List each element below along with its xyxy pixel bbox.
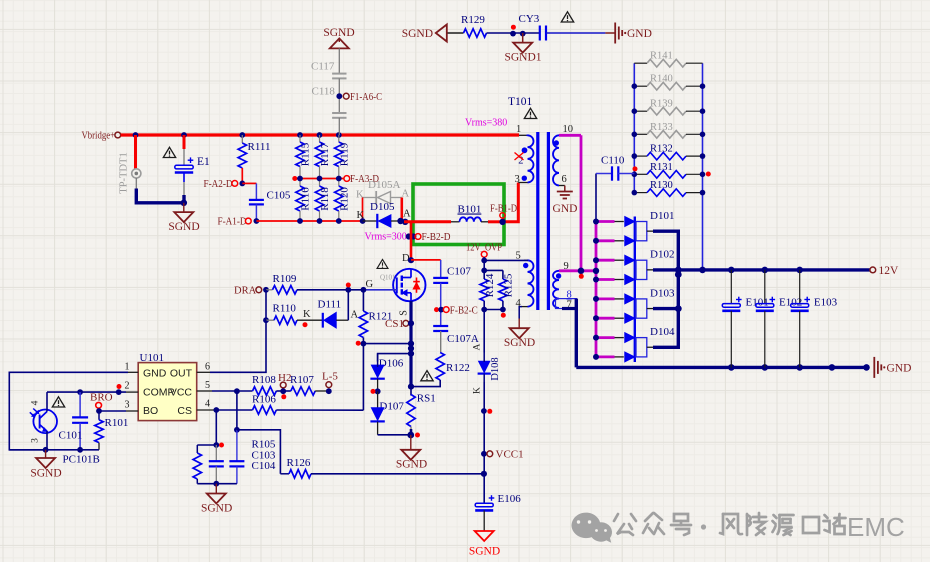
svg-text:10: 10: [563, 124, 574, 135]
port F-B1-D: [490, 203, 517, 219]
svg-text:EMC: EMC: [847, 512, 905, 542]
node R124 top junction: [481, 268, 487, 274]
svg-text:1: 1: [125, 362, 130, 373]
ground SGND top (snubber): [323, 27, 354, 48]
resistor R133: [634, 122, 702, 138]
node DRA junction: [263, 287, 269, 293]
svg-text:E106: E106: [498, 493, 522, 505]
capacitor C107A: [433, 326, 479, 345]
wire R121 node to R106 row: [362, 344, 364, 411]
capacitor C107: [433, 260, 471, 283]
power GND (chassis): [615, 23, 652, 44]
node junction R129/CY3: [510, 25, 525, 37]
svg-text:DRA: DRA: [234, 286, 257, 297]
svg-text:GND: GND: [887, 362, 912, 374]
wire BO pin3: [99, 410, 138, 412]
svg-text:R115: R115: [300, 142, 312, 166]
svg-text:SGND: SGND: [402, 28, 433, 40]
svg-text:T101: T101: [508, 96, 533, 108]
inductor B101: [451, 204, 488, 222]
resistor R115: [296, 135, 312, 179]
labels R105 C103 C104: [252, 439, 276, 473]
resistor R118: [315, 179, 331, 222]
wire drain riser: [410, 222, 413, 260]
warning triangle Q101: [377, 259, 388, 268]
wire R124/R125 bottom row: [484, 301, 503, 310]
svg-text:R118: R118: [319, 187, 331, 211]
wire R110 to D111: [297, 309, 322, 327]
svg-text:SGND: SGND: [30, 468, 61, 480]
svg-text:Vbridge+: Vbridge+: [82, 131, 116, 142]
node D105 A junction: [397, 209, 411, 226]
resistor R132: [634, 144, 702, 160]
node F1-A6-C junction: [336, 93, 342, 99]
node drain junction: [408, 257, 414, 263]
svg-text:4: 4: [205, 399, 210, 410]
resistor R119: [335, 135, 351, 179]
capacitor E1: [175, 156, 210, 173]
svg-text:R129: R129: [461, 14, 485, 26]
wire F-A2-D to C105: [242, 183, 256, 199]
wire pin10 to bus: [559, 134, 581, 137]
wire SGND to C117: [338, 48, 340, 73]
svg-text:R132: R132: [650, 144, 673, 155]
svg-text:GND: GND: [143, 368, 167, 380]
resistor R131: [634, 162, 702, 178]
ground SGND red: [469, 531, 500, 558]
optocoupler PC101B: [30, 400, 57, 443]
port 12V: [870, 265, 899, 277]
svg-text:G: G: [366, 279, 374, 290]
resistor R117: [315, 135, 331, 179]
label S source: [399, 310, 410, 316]
wire pin9 to bus: [559, 269, 596, 272]
port DRA: [234, 286, 262, 297]
wire R108-R107 link: [276, 390, 291, 392]
resistor R109: [266, 273, 297, 294]
wire CY3 to GND: [546, 32, 615, 34]
svg-text:Vrms=300: Vrms=300: [365, 231, 407, 242]
node pin9 bus junction: [593, 268, 599, 274]
diode D111: [318, 298, 359, 328]
wire B101 to pin1..3 riser: [488, 183, 518, 222]
node RC bottom junction: [213, 481, 219, 487]
svg-text:SGND: SGND: [168, 221, 199, 233]
wire D105A-K stub: [362, 198, 364, 222]
wire D101 out: [653, 231, 678, 270]
wire emitter: [46, 431, 48, 450]
capacitor E103: [791, 270, 838, 368]
ground SGND opto: [30, 450, 61, 480]
svg-text:R139: R139: [650, 99, 673, 110]
svg-text:6: 6: [562, 174, 567, 185]
svg-text:R116: R116: [300, 187, 312, 211]
wire F-A1-D row: [256, 220, 362, 222]
wire TP to SGND node: [136, 189, 184, 203]
svg-text:R107: R107: [290, 374, 314, 386]
svg-text:Vrms=380: Vrms=380: [465, 118, 507, 129]
port CS1: [385, 318, 414, 330]
port Vbridge+: [82, 131, 121, 142]
svg-text:D105: D105: [370, 201, 395, 213]
ground GND transformer: [553, 186, 578, 216]
node source junctions: [408, 341, 414, 357]
port 12V_OVP: [466, 242, 502, 258]
svg-text:K: K: [472, 387, 482, 394]
wire R121 bottom row: [363, 338, 411, 344]
svg-text:R124: R124: [484, 273, 496, 297]
wire D103 out: [653, 270, 678, 309]
wire gnd bus: [576, 366, 868, 369]
wire R109 to gate node: [297, 289, 363, 291]
watermark logo and text: [572, 512, 905, 543]
capacitor C105: [249, 190, 291, 205]
wire anode stubs: [593, 219, 624, 360]
node RS1 bottom junction: [407, 432, 420, 439]
svg-text:S: S: [399, 310, 410, 316]
svg-text:VCC: VCC: [170, 387, 193, 399]
wire VCC1 to E106: [483, 454, 485, 503]
svg-text:R122: R122: [446, 362, 470, 374]
svg-text:R108: R108: [252, 374, 276, 386]
wire Vbridge+ bus: [121, 133, 519, 136]
node D105 K junction: [357, 210, 366, 224]
winding primary 1-3: [515, 124, 534, 185]
svg-text:12V: 12V: [879, 265, 900, 277]
wire Rbank left rail: [633, 63, 635, 192]
diode D108: [472, 343, 501, 394]
svg-text:4: 4: [31, 400, 41, 405]
wire R106 to R121 node: [276, 409, 363, 411]
wire C117 to C118: [338, 78, 340, 112]
svg-text:C118: C118: [312, 86, 336, 98]
wire F-A3-D row: [294, 178, 345, 180]
svg-text:Q101: Q101: [380, 274, 396, 282]
svg-text:R133: R133: [650, 122, 673, 133]
wire E106 bottom: [483, 510, 485, 531]
svg-text:C110: C110: [601, 155, 625, 167]
svg-text:SGND: SGND: [323, 27, 354, 39]
node Rbank junctions: [632, 83, 711, 195]
svg-text:R140: R140: [650, 74, 673, 85]
svg-text:C101: C101: [59, 430, 83, 442]
node F-A1-D junction: [254, 218, 260, 224]
wire TP lead: [135, 178, 137, 189]
node mid junction: [481, 408, 492, 414]
svg-text:SGND: SGND: [201, 503, 232, 515]
port VCC1: [481, 449, 524, 461]
svg-text:C107: C107: [447, 266, 471, 278]
wire to R126: [237, 430, 281, 474]
port F-A2-D: [204, 178, 238, 190]
wire CS pin4: [197, 409, 253, 411]
svg-text:R111: R111: [248, 141, 271, 153]
node pin9/10 junction: [578, 268, 585, 279]
diode D105A: [356, 179, 410, 204]
node gnd bus junctions: [728, 364, 870, 371]
wire VCC pin5: [197, 390, 253, 392]
resistor R125: [499, 273, 515, 309]
svg-text:3: 3: [515, 174, 520, 185]
svg-text:OUT: OUT: [170, 368, 193, 380]
testpoint TP-TDT1: [119, 152, 141, 193]
resistor R108: [252, 374, 276, 395]
wire GND pin1 loop: [9, 372, 138, 450]
node F-B2-C junction: [434, 307, 444, 313]
port BRO: [90, 392, 113, 409]
port F-B2-C: [443, 304, 477, 316]
svg-text:SGND: SGND: [469, 546, 500, 558]
pin names U101: [143, 368, 193, 418]
port F-B2-D: [415, 231, 450, 243]
wire D106 top link: [378, 354, 411, 362]
pin numbers U101: [125, 362, 211, 411]
svg-text:CS: CS: [177, 405, 192, 417]
node rect bus junctions: [675, 267, 682, 313]
svg-text:C105: C105: [267, 190, 291, 202]
wire R126 to VCC1 node: [311, 473, 484, 475]
svg-text:R130: R130: [650, 180, 673, 191]
wire R107 to L-5: [315, 390, 329, 392]
svg-text:D108: D108: [490, 357, 501, 380]
svg-text:R126: R126: [287, 457, 311, 469]
ground wire pin4 SGND: [519, 307, 522, 319]
node BRO junction: [96, 408, 102, 414]
node bottom row junctions: [297, 218, 342, 224]
svg-text:CY3: CY3: [519, 13, 540, 25]
wire R125 top link: [484, 270, 503, 279]
svg-text:GND: GND: [627, 28, 652, 40]
wire R105 top link: [197, 445, 216, 453]
diode D103: [636, 287, 675, 318]
resistor R130: [634, 180, 702, 196]
capacitor E102: [756, 270, 802, 368]
node C103 top junction: [213, 442, 224, 448]
wire OVP node: [481, 257, 528, 270]
wire D108 to VCC1: [483, 382, 485, 454]
svg-text:F-B2-C: F-B2-C: [450, 304, 478, 316]
wire COMP pin2: [47, 384, 138, 392]
resistor R111: [238, 135, 270, 168]
wire E1 top stub: [183, 135, 186, 165]
wire to D108: [483, 310, 485, 353]
wire Rbank right rail: [702, 63, 704, 271]
svg-text:R110: R110: [273, 303, 297, 315]
node C104 top junction: [234, 427, 240, 433]
wire D105 to B101: [404, 220, 451, 223]
wire R129 to CY3: [487, 32, 540, 34]
svg-text:RS1: RS1: [417, 393, 436, 405]
resistor R122: [436, 353, 470, 381]
resistor R140: [634, 74, 702, 90]
resistor R141: [634, 51, 702, 67]
node bottom junctions: [43, 447, 83, 453]
wire magenta riser 10-9: [580, 135, 583, 270]
wire D102 out: [653, 268, 678, 271]
warning triangle E1: [163, 147, 175, 157]
capacitor E101: [722, 270, 768, 368]
diode array cathodes: [625, 217, 635, 363]
winding primary 5-4: [516, 251, 534, 310]
label PC101B: [63, 454, 100, 466]
node B101 out junction: [499, 219, 505, 225]
label D drain: [402, 253, 410, 264]
svg-text:R101: R101: [105, 417, 129, 429]
wire OUT pin6: [197, 320, 266, 372]
svg-text:K: K: [303, 309, 311, 320]
wire C107A to R122: [440, 331, 442, 353]
wire anode bus: [595, 222, 598, 357]
svg-text:R131: R131: [650, 162, 673, 173]
node R109/D111 junction: [345, 283, 351, 293]
wire DRA to R110: [265, 290, 267, 320]
resistor R120: [335, 179, 351, 222]
ground SGND RC: [201, 484, 232, 515]
svg-text:R121: R121: [369, 311, 393, 323]
node pin5 branch: [234, 388, 240, 394]
resistor R129: [461, 14, 487, 37]
label Vrms=380: [465, 118, 507, 129]
wire E1 bottom: [183, 173, 185, 203]
warning triangle T101: [524, 108, 536, 118]
wire C118 to bus: [338, 118, 340, 135]
node pin4 branch: [213, 407, 219, 413]
wire 12V rail: [678, 268, 870, 271]
resistor R110: [266, 303, 297, 325]
pin 2 crossed out: [515, 153, 524, 167]
resistor R116: [296, 179, 312, 222]
capacitor CY3: [519, 13, 547, 41]
warning triangle PC101B: [52, 397, 64, 407]
diode D107: [370, 391, 404, 434]
winding secondary 9-7/8: [553, 261, 569, 308]
svg-text:D105A: D105A: [368, 179, 400, 191]
node R bottom junctions: [481, 307, 505, 318]
svg-text:R125: R125: [503, 273, 515, 297]
svg-text:F-A1-D: F-A1-D: [218, 216, 247, 228]
capacitor C104: [229, 430, 244, 484]
svg-text:R106: R106: [252, 394, 276, 406]
svg-text:R119: R119: [338, 142, 350, 166]
transformer core: [538, 132, 549, 310]
resistor R107: [290, 374, 315, 395]
warning triangle R122: [421, 371, 433, 381]
port F1-A6-C: [343, 91, 382, 103]
svg-text:BO: BO: [143, 405, 158, 417]
resistor R105: [193, 453, 201, 484]
ground GND output: [874, 357, 911, 378]
port F-A3-D: [344, 173, 379, 185]
capacitor C103: [209, 445, 224, 484]
svg-text:R120: R120: [338, 187, 350, 211]
ground SGND below RS1: [396, 435, 427, 471]
node F-B2-D junction: [406, 233, 417, 239]
node bus junctions: [133, 132, 342, 138]
svg-text:TP-TDT1: TP-TDT1: [119, 152, 130, 193]
svg-text:3: 3: [31, 438, 41, 443]
svg-text:C117: C117: [311, 61, 335, 73]
wire C105 bottom: [255, 204, 257, 221]
wire C110 to anode bus: [595, 174, 597, 222]
wire gate: [363, 279, 396, 290]
node E1/SGND junction: [181, 200, 188, 207]
node R121 bottom junction: [356, 341, 367, 347]
node R110 junction: [263, 317, 269, 323]
svg-text:R109: R109: [273, 273, 297, 285]
port H2: [278, 372, 291, 399]
node F-A3-D junctions: [292, 176, 341, 182]
wire R122 to RS1 node: [411, 380, 440, 387]
svg-text:A: A: [403, 209, 411, 220]
highlight green box: [413, 184, 504, 245]
wire pin5 col down: [236, 391, 238, 430]
svg-text:B101: B101: [458, 204, 482, 216]
svg-text:F1-A6-C: F1-A6-C: [350, 91, 382, 103]
svg-text:A: A: [351, 310, 359, 321]
ground SGND pin4: [504, 319, 535, 349]
wire C107 to node: [440, 283, 442, 326]
ground SGND (EMI filter): [402, 25, 447, 42]
svg-text:C107A: C107A: [447, 333, 479, 345]
node 12V rail junctions: [699, 267, 803, 274]
diode D105: [363, 201, 404, 228]
wire TP stub: [134, 135, 137, 169]
resistor RS1: [407, 384, 436, 436]
wire source riser: [409, 301, 412, 387]
wire pin6 to GND: [559, 185, 565, 187]
svg-text:D107: D107: [379, 401, 404, 413]
warning triangle CY3: [561, 12, 573, 22]
resistor R124: [480, 270, 496, 300]
svg-text:L-5: L-5: [322, 371, 338, 383]
node F-A2-D junction: [239, 181, 245, 187]
svg-text:SGND1: SGND1: [504, 52, 541, 64]
diode D101: [636, 210, 674, 241]
svg-text:F-B2-D: F-B2-D: [422, 231, 451, 243]
capacitor E106: [475, 493, 521, 510]
resistor R139: [634, 99, 702, 115]
wire pins7/8 to gnd bus: [562, 299, 576, 368]
svg-text:1: 1: [516, 124, 521, 135]
port F-A1-D: [218, 216, 252, 228]
port L-5: [322, 371, 338, 395]
wire collector: [46, 392, 48, 411]
diode D104: [636, 326, 675, 357]
wire D107 to RS1 bottom: [378, 434, 411, 436]
svg-text:D102: D102: [650, 249, 674, 261]
wire bottom row opto: [9, 449, 99, 451]
wire bottom RC row: [197, 483, 237, 485]
IC U101: [138, 352, 197, 421]
svg-text:U101: U101: [140, 352, 164, 364]
svg-text:D111: D111: [318, 298, 342, 310]
ground SGND below E1: [168, 203, 199, 233]
wire SGND stub to R129: [447, 32, 464, 34]
wire D105A-A stub: [400, 198, 403, 222]
capacitor C117: [311, 61, 347, 79]
svg-text:SGND: SGND: [504, 337, 535, 349]
node pin2 junctions: [77, 389, 121, 395]
svg-text:A: A: [472, 343, 482, 350]
capacitor C110: [596, 155, 634, 181]
svg-text:C104: C104: [252, 460, 276, 472]
wire drain to C107: [411, 259, 441, 261]
resistor R101: [95, 411, 129, 450]
svg-text:2: 2: [125, 381, 130, 392]
transistor Q101: [380, 269, 425, 301]
node D106/D107 junction: [371, 388, 381, 394]
resistor R106: [252, 394, 276, 415]
